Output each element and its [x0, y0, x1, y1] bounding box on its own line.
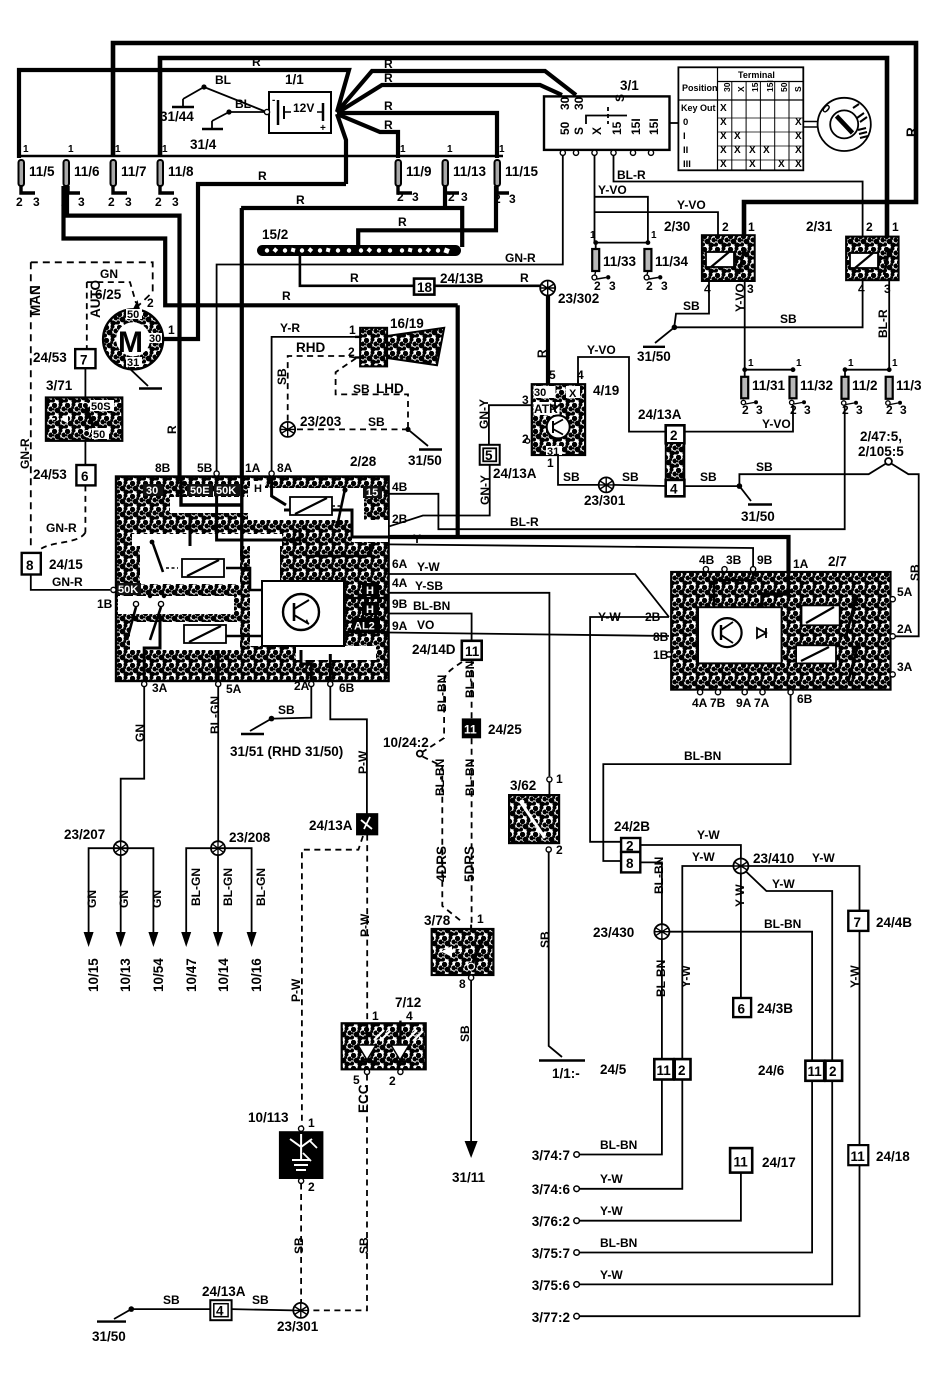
svg-text:GN: GN — [133, 724, 147, 742]
relay unit 2/7 — [671, 554, 890, 690]
svg-text:30: 30 — [722, 82, 732, 92]
svg-text:2: 2 — [742, 403, 749, 417]
svg-text:2A: 2A — [294, 679, 310, 693]
svg-text:31/44: 31/44 — [160, 109, 194, 124]
wire BL-BN 24/2B item8 to splice 23/430 — [640, 862, 662, 924]
ground 31/50 mid right — [739, 486, 774, 524]
svg-text:10/16: 10/16 — [249, 958, 264, 992]
svg-text:3/76:2: 3/76:2 — [532, 1214, 570, 1229]
wire SB ground to connector 24/13A item 4 bottom — [131, 1308, 210, 1310]
svg-text:3: 3 — [900, 403, 907, 417]
svg-text:4/19: 4/19 — [593, 383, 619, 398]
svg-text:31/4: 31/4 — [190, 137, 217, 152]
svg-text:3: 3 — [747, 282, 754, 296]
svg-text:BL-R: BL-R — [876, 309, 890, 338]
svg-text:SB: SB — [622, 470, 639, 484]
wire Y-VO relay 2/30 pin 3 to fuse 11/31 — [744, 281, 746, 370]
fuse 11/33 — [590, 230, 648, 293]
wire 3/1 to key table — [670, 122, 679, 124]
svg-text:2A: 2A — [897, 622, 913, 636]
svg-text:24/4B: 24/4B — [876, 915, 912, 930]
svg-text:50: 50 — [93, 429, 105, 441]
svg-text:Y-VO: Y-VO — [762, 417, 791, 431]
wire Y-W 2/28 6A to 2/7 pin 2B — [389, 574, 669, 617]
svg-text:BL-GN: BL-GN — [254, 868, 268, 906]
svg-text:11/32: 11/32 — [800, 378, 833, 393]
svg-text:Y-VO: Y-VO — [598, 183, 627, 197]
svg-text:BL-BN: BL-BN — [600, 1236, 637, 1250]
svg-text:-: - — [272, 95, 275, 106]
svg-text:2: 2 — [389, 1074, 396, 1088]
svg-text:2/30: 2/30 — [664, 219, 690, 234]
svg-text:Y-W: Y-W — [417, 560, 440, 574]
svg-text:1: 1 — [162, 144, 168, 155]
connector 24/13A inline — [309, 814, 378, 835]
svg-text:GN-R: GN-R — [46, 521, 77, 535]
svg-text:11/9: 11/9 — [406, 164, 432, 179]
svg-text:BL-BN: BL-BN — [435, 675, 449, 712]
svg-text:SB: SB — [163, 1293, 180, 1307]
dashed wire BL-BN 24/14D to 24/25 — [471, 660, 473, 719]
ground 1/1:- — [539, 1061, 585, 1082]
svg-text:X: X — [590, 127, 604, 135]
wire R top rail L1 from fuse 11/7 to right edge corner down to relay 2/30 pin 1 — [113, 43, 916, 248]
wire Y-W 24/2B item2 to splice 23/410 — [640, 845, 741, 858]
svg-text:LHD: LHD — [376, 381, 404, 396]
wire BL-R 2/28 4B to fuse 11/2 — [389, 405, 845, 529]
svg-text:M: M — [118, 326, 143, 359]
wire Y-W 2/7 2B to 24/2B item 2 — [590, 617, 669, 842]
svg-text:30: 30 — [572, 96, 586, 110]
svg-text:16/19: 16/19 — [390, 316, 424, 331]
wire 11/15 to 15/2 — [358, 186, 496, 247]
wire R from battery to fuse 11/15 — [337, 113, 497, 158]
svg-text:6B: 6B — [797, 692, 813, 706]
svg-text:3A: 3A — [152, 681, 168, 695]
svg-text:SB: SB — [252, 1293, 269, 1307]
svg-text:3: 3 — [509, 192, 516, 206]
fuse 11/31 — [741, 358, 793, 417]
svg-text:R: R — [350, 271, 359, 285]
svg-text:GN: GN — [150, 890, 164, 908]
svg-text:11/2: 11/2 — [852, 378, 878, 393]
svg-text:10/54: 10/54 — [151, 958, 166, 992]
svg-text:BL-BN: BL-BN — [684, 749, 721, 763]
svg-text:24/25: 24/25 — [488, 722, 522, 737]
svg-text:11: 11 — [465, 644, 480, 659]
control unit 2/28 — [116, 454, 389, 681]
svg-text:31/50: 31/50 — [637, 349, 671, 364]
svg-text:SB: SB — [756, 460, 773, 474]
svg-text:3B: 3B — [726, 553, 742, 567]
svg-text:8: 8 — [459, 977, 466, 991]
svg-text:24/53: 24/53 — [33, 467, 67, 482]
svg-text:2: 2 — [722, 220, 729, 234]
svg-text:30: 30 — [534, 387, 546, 399]
svg-text:2/47:5,: 2/47:5, — [860, 429, 902, 444]
svg-text:1: 1 — [796, 358, 802, 369]
starter motor 6/25 — [95, 287, 175, 369]
svg-text:X: X — [734, 131, 741, 142]
svg-text:R: R — [904, 127, 919, 137]
svg-text:2/7: 2/7 — [828, 554, 847, 569]
wire R splice to 4/19 pin 5 — [546, 296, 550, 385]
svg-text:50: 50 — [558, 121, 572, 135]
svg-text:2: 2 — [594, 279, 601, 293]
splice 23/207 — [64, 827, 128, 855]
terminal 3/76:2 — [532, 1204, 624, 1229]
fuse 11/13 — [443, 144, 487, 204]
wire SB relay 2/30 pin 4 to ground junction — [674, 281, 709, 326]
svg-text:SB: SB — [292, 1237, 306, 1254]
svg-text:2: 2 — [866, 220, 873, 234]
svg-text:50E: 50E — [190, 485, 210, 497]
svg-text:H: H — [254, 483, 262, 495]
wire Y-SB 2/28 4A to 3/62 pin 1 — [389, 593, 549, 776]
svg-text:2: 2 — [670, 428, 678, 443]
svg-text:11/7: 11/7 — [121, 164, 147, 179]
svg-text:P-W: P-W — [356, 750, 370, 774]
svg-text:R: R — [384, 57, 393, 71]
connector 24/2B items 2 and 8 — [614, 819, 650, 872]
connector 24/14D item 11 — [412, 641, 482, 660]
fuse 11/6 — [61, 144, 100, 209]
ground starter 31 — [128, 367, 162, 389]
svg-text:H: H — [366, 585, 374, 597]
component 4/19 time relay ATR — [522, 368, 619, 470]
svg-text:30: 30 — [558, 96, 572, 110]
fuse 11/8 — [155, 144, 194, 209]
wire Y-W 24/5 item2 to 3/74:6 — [579, 1080, 682, 1189]
svg-text:X: X — [569, 388, 577, 400]
connector 24/15 item 8 — [22, 553, 84, 575]
svg-text:GN: GN — [117, 890, 131, 908]
ignition switch 3/1 — [544, 78, 670, 155]
svg-text:BL-BN: BL-BN — [463, 759, 477, 796]
svg-text:10/15: 10/15 — [86, 958, 101, 992]
svg-text:15: 15 — [750, 82, 760, 92]
svg-text:4B: 4B — [699, 553, 715, 567]
ground 31/44 — [160, 99, 194, 124]
svg-text:SB: SB — [780, 312, 797, 326]
svg-text:III: III — [683, 159, 691, 170]
svg-text:11: 11 — [657, 1063, 672, 1078]
wire 24/18 to 3/77:2 — [579, 1165, 859, 1316]
svg-text:11: 11 — [851, 1149, 866, 1164]
svg-text:S: S — [572, 127, 586, 135]
svg-text:3: 3 — [609, 279, 616, 293]
svg-text:X: X — [749, 159, 756, 170]
wire BL-BN splice 23/430 to 24/5 item 11 — [661, 939, 663, 1059]
connector 24/13A items 2 and 4 — [638, 407, 684, 497]
splice 23/208 — [211, 830, 271, 855]
svg-text:1/1: 1/1 — [285, 72, 304, 87]
wire Y-R 16/19 pin1 to 2/28 pin 8A — [272, 337, 355, 473]
wire Y-W splice to 24/3B item 6 — [740, 874, 742, 999]
wire SB 2/28 2A to ground 31/51 — [273, 687, 312, 719]
svg-text:X: X — [720, 159, 727, 170]
svg-text:6: 6 — [738, 1002, 746, 1017]
svg-text:II: II — [683, 145, 688, 156]
svg-text:1B: 1B — [653, 648, 669, 662]
svg-text:9B: 9B — [757, 553, 773, 567]
wire R rail L2 from fuse 11/8 to right edge corner down to relay 2/31 pin 1 — [160, 58, 887, 248]
ground 31/50 bottom — [92, 1306, 134, 1344]
svg-text:X: X — [795, 117, 802, 128]
lock unit 3/62 — [509, 772, 563, 857]
wire SB 3/78 pin 8 to ground 31/11 — [470, 980, 472, 1141]
connector 24/13A item 5 — [477, 399, 537, 505]
svg-text:24/53: 24/53 — [33, 350, 67, 365]
splice 23/203 — [280, 414, 385, 437]
svg-text:3: 3 — [804, 403, 811, 417]
wire SB relay 2/31 pin 4 to ground junction — [674, 281, 862, 327]
wire 15/2 to connector 24/13B — [300, 256, 414, 286]
svg-text:SB: SB — [275, 368, 289, 385]
wire BL battery negative to 31/4 — [212, 97, 264, 121]
svg-text:AL2: AL2 — [354, 621, 375, 633]
svg-text:4: 4 — [216, 1304, 224, 1319]
wire BL-BN 24/5 item11 to 3/74:7 — [579, 1080, 662, 1155]
dashed wire SB 10/113 pin 2 to splice 23/301 — [300, 1184, 302, 1303]
svg-text:1: 1 — [68, 144, 74, 155]
svg-text:3/74:6: 3/74:6 — [532, 1182, 571, 1197]
svg-text:11: 11 — [734, 1155, 749, 1170]
wire fuse bus rail — [19, 155, 503, 158]
svg-text:BL: BL — [215, 73, 231, 87]
wire SB 4/19 pin 1 to splice 23/301 — [558, 455, 599, 485]
wire BL-GN branches from 23/208 — [181, 848, 268, 992]
svg-text:1: 1 — [447, 144, 453, 155]
svg-text:24/15: 24/15 — [49, 557, 83, 572]
svg-text:50S: 50S — [91, 401, 111, 413]
svg-text:2: 2 — [108, 195, 115, 209]
svg-text:1: 1 — [590, 230, 596, 241]
svg-text:24/3B: 24/3B — [757, 1001, 793, 1016]
svg-text:R: R — [258, 169, 267, 183]
svg-text:X: X — [795, 145, 802, 156]
wire SB 3/62 pin 2 to ground 1/1:- — [549, 852, 562, 1057]
svg-text:Y-W: Y-W — [848, 965, 862, 988]
svg-text:5B: 5B — [197, 461, 213, 475]
svg-text:15I: 15I — [629, 118, 643, 135]
svg-text:Position: Position — [682, 83, 718, 93]
node 2/7 bottom pins — [692, 690, 813, 710]
dashed wire P-W to lamp 10/113 — [302, 836, 363, 1126]
svg-text:X: X — [763, 145, 770, 156]
svg-text:SB: SB — [458, 1025, 472, 1042]
svg-text:50: 50 — [779, 82, 789, 92]
svg-text:R: R — [165, 425, 179, 434]
wire Y-W 24/6 item2 to 3/75:6 — [579, 1081, 832, 1285]
svg-text:2: 2 — [678, 1063, 686, 1078]
fuse 11/5 — [16, 144, 55, 209]
svg-text:SB: SB — [908, 564, 922, 581]
svg-text:24/2B: 24/2B — [614, 819, 650, 834]
svg-text:GN-R: GN-R — [505, 251, 536, 265]
svg-text:P-W: P-W — [358, 913, 372, 937]
svg-text:Y-W: Y-W — [812, 851, 835, 865]
svg-text:4: 4 — [406, 1009, 413, 1023]
svg-text:10/13: 10/13 — [118, 958, 133, 992]
svg-text:3: 3 — [756, 403, 763, 417]
wire Y-VO 24/13A item2 to fuse 11/32 — [684, 405, 793, 432]
wire SB to terminal 2/47:5 2/105:5 — [739, 464, 918, 637]
svg-text:1: 1 — [308, 1116, 315, 1130]
horn relay unit 16/19 — [348, 316, 444, 366]
svg-text:Y-W: Y-W — [733, 884, 747, 907]
svg-text:2/28: 2/28 — [350, 454, 377, 469]
svg-text:50K: 50K — [216, 485, 236, 497]
svg-text:10/113: 10/113 — [248, 1110, 289, 1125]
svg-text:GN-R: GN-R — [18, 438, 32, 469]
svg-text:0: 0 — [683, 117, 688, 128]
terminal 10/24:2 — [383, 735, 429, 757]
svg-text:5A: 5A — [226, 682, 242, 696]
svg-text:3/71: 3/71 — [46, 378, 73, 393]
svg-text:Y-VO: Y-VO — [587, 343, 616, 357]
wire GN 2/28 3A to splice 23/207 — [121, 687, 145, 842]
svg-text:23/430: 23/430 — [593, 925, 634, 940]
wire 11/6 branch to rail joint — [64, 186, 458, 305]
wire R battery branch down-left — [337, 114, 346, 184]
svg-text:31/11: 31/11 — [452, 1170, 486, 1185]
svg-text:15/2: 15/2 — [262, 227, 288, 242]
svg-text:15: 15 — [610, 121, 624, 135]
svg-text:1B: 1B — [97, 597, 113, 611]
svg-text:3/77:2: 3/77:2 — [532, 1310, 570, 1325]
wire Y-W 24/4B to 24/18 — [859, 931, 861, 1145]
wire R rail from 1A riser into 15/2 — [241, 208, 462, 247]
relay 2/30 — [664, 219, 755, 296]
svg-text:SB: SB — [700, 470, 717, 484]
wire GN-R 2/28 5B to ignition pin 50 — [217, 155, 563, 473]
svg-text:R: R — [384, 118, 393, 132]
wire BL-BN 24/6 item11 to 3/75:7 — [579, 1081, 812, 1253]
svg-text:4B: 4B — [392, 480, 408, 494]
terminal 3/74:6 — [532, 1172, 624, 1197]
wire SB 24/13A item 4 to ground and 2/47:5 — [684, 485, 739, 487]
svg-text:GN: GN — [100, 267, 118, 281]
connector 24/5 items 11 and 2 — [600, 1059, 691, 1079]
svg-text:15I: 15I — [647, 118, 661, 135]
svg-text:S: S — [793, 86, 803, 92]
fuse 11/2 — [842, 358, 890, 417]
svg-text:1: 1 — [23, 144, 29, 155]
wire thick rail to 2/28 and 2/7 pin 1A — [389, 305, 789, 575]
wire table to key symbol — [803, 122, 818, 128]
svg-text:X: X — [778, 159, 785, 170]
wire BL-BN 2/7 6B to 24/2B item 8 — [603, 695, 790, 861]
svg-text:VO: VO — [417, 618, 434, 632]
svg-text:Y-W: Y-W — [692, 850, 715, 864]
svg-text:Y-SB: Y-SB — [415, 579, 443, 593]
svg-text:7A: 7A — [754, 696, 770, 710]
svg-text:50: 50 — [127, 309, 139, 321]
svg-text:X: X — [720, 103, 727, 114]
svg-text:11/5: 11/5 — [29, 164, 55, 179]
svg-text:X: X — [795, 131, 802, 142]
svg-text:Y-VO: Y-VO — [677, 198, 706, 212]
svg-text:7: 7 — [854, 915, 862, 930]
dashed wire GN-R 24/53 item6 to 24/15 — [38, 485, 85, 551]
wire SB splice to 24/13A item 4 — [614, 485, 666, 486]
wire BL-BN splice 23/430 to 24/6 item 11 — [669, 932, 812, 1061]
svg-text:7/12: 7/12 — [395, 995, 421, 1010]
dashed SB RHD path 16/19 pin2 to splice 23/203 — [288, 356, 355, 422]
svg-text:MAN: MAN — [28, 285, 43, 316]
wire Y-VO ignition X pin to fuses 11/33 11/34 and relay 2/30 — [595, 155, 719, 243]
svg-text:2: 2 — [147, 296, 154, 310]
wire Y-W splice to 24/5 item 2 — [682, 866, 733, 1059]
svg-text:7B: 7B — [710, 696, 726, 710]
svg-text:SB: SB — [353, 382, 370, 396]
wire VO 2/28 9A to 2/7 pin 8B — [389, 633, 669, 637]
svg-text:3/1: 3/1 — [620, 78, 639, 93]
svg-text:24/5: 24/5 — [600, 1062, 627, 1077]
svg-text:1: 1 — [892, 358, 898, 369]
svg-text:3/78: 3/78 — [424, 913, 451, 928]
connector 24/13A item 4 bottom — [202, 1284, 246, 1320]
svg-text:11/13: 11/13 — [453, 164, 487, 179]
svg-text:X: X — [720, 131, 727, 142]
svg-text:8B: 8B — [653, 630, 669, 644]
svg-text:R: R — [384, 71, 393, 85]
svg-text:24/18: 24/18 — [876, 1149, 910, 1164]
svg-text:1: 1 — [651, 230, 657, 241]
connector 24/17 item 11 — [730, 1148, 796, 1173]
svg-text:2: 2 — [829, 1064, 837, 1079]
svg-text:2: 2 — [556, 843, 563, 857]
svg-text:2/105:5: 2/105:5 — [858, 444, 904, 459]
svg-text:SB: SB — [357, 1237, 371, 1254]
wire R from battery down to starter rail — [337, 114, 398, 158]
svg-text:2: 2 — [646, 279, 653, 293]
switch 3/71 — [46, 378, 122, 441]
svg-text:15: 15 — [366, 487, 378, 499]
svg-text:Terminal: Terminal — [738, 70, 775, 80]
svg-text:2: 2 — [155, 195, 162, 209]
svg-text:23/301: 23/301 — [277, 1319, 319, 1334]
svg-text:31/50: 31/50 — [408, 453, 442, 468]
dashed wire BL-BN branch to 10/24:2 — [423, 662, 463, 752]
dashed wire BL-BN 5DRS to 3/78 pin 1 — [471, 738, 473, 924]
wire BL battery negative to 31/44 — [183, 73, 264, 111]
wire GN-Y 24/13A item5 to 2/28 pin 2B — [390, 465, 490, 527]
wire Y-W splice to 24/6 item 2 — [746, 872, 832, 1061]
svg-text:3/75:7: 3/75:7 — [532, 1246, 570, 1261]
svg-text:24/13A: 24/13A — [202, 1284, 246, 1299]
wire 1A riser to 2/28 — [240, 208, 244, 476]
dashed wire BL-BN 4DRS 10/24:2 to 3/78 pin 1 — [423, 757, 464, 924]
node 2/7 left pins — [598, 610, 672, 662]
svg-text:Y-VO: Y-VO — [733, 283, 747, 312]
svg-text:BL-R: BL-R — [617, 168, 646, 182]
svg-text:3: 3 — [172, 195, 179, 209]
svg-text:3/74:7: 3/74:7 — [532, 1148, 570, 1163]
svg-text:31/50: 31/50 — [92, 1329, 126, 1344]
battery 1/1 — [264, 72, 331, 134]
node arrow into motor — [133, 300, 140, 310]
wire Y-W 24/17 to 3/76:2 — [579, 1173, 741, 1221]
node 2/28 top pin labels — [155, 461, 293, 476]
splice 23/301 upper — [584, 477, 626, 508]
svg-text:Y-W: Y-W — [772, 877, 795, 891]
connector 24/13B item 18 — [414, 271, 484, 295]
svg-text:8: 8 — [626, 856, 634, 871]
wire P-W 2/28 6B to connector 24/13A — [330, 687, 367, 814]
svg-text:3: 3 — [661, 279, 668, 293]
